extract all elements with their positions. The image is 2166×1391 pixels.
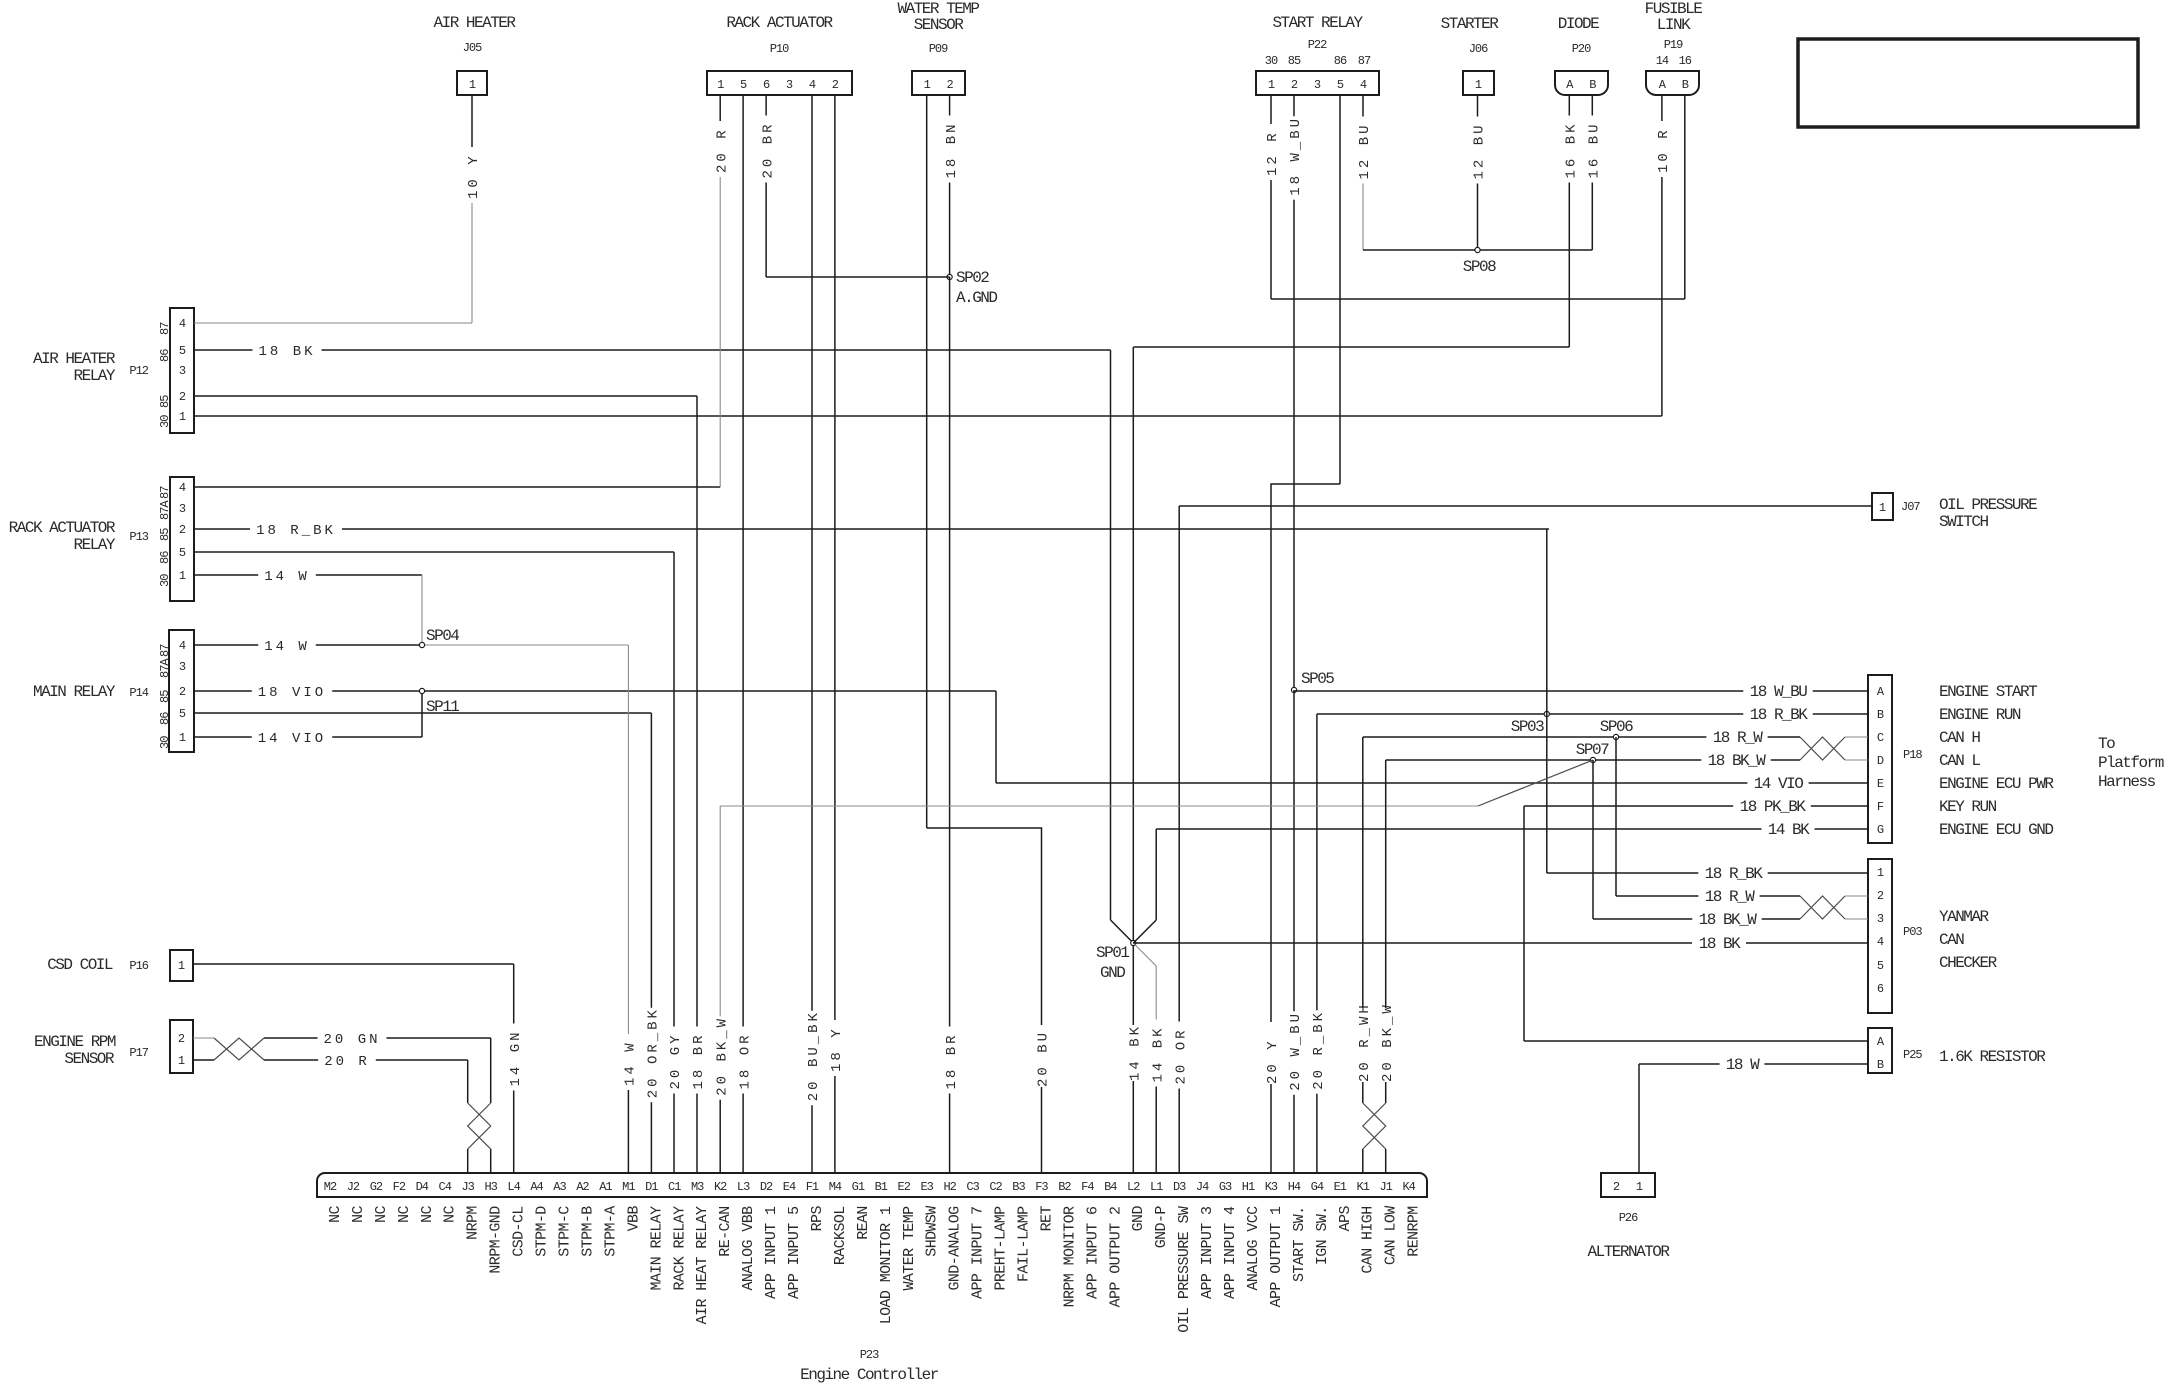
svg-text:1: 1 (178, 959, 185, 973)
svg-text:F2: F2 (393, 1180, 406, 1194)
svg-text:F3: F3 (1035, 1180, 1048, 1194)
svg-text:K2: K2 (714, 1180, 727, 1194)
svg-text:18 Y: 18 Y (829, 1026, 845, 1072)
svg-text:87A: 87A (158, 500, 172, 520)
svg-text:APP INPUT 5: APP INPUT 5 (786, 1206, 803, 1299)
svg-text:APS: APS (1337, 1206, 1354, 1232)
svg-text:18 PK_BK: 18 PK_BK (1740, 798, 1807, 816)
wire P13 pin5 to C1 column (194, 551, 674, 553)
svg-text:P17: P17 (129, 1046, 148, 1060)
svg-text:DIODE: DIODE (1558, 15, 1599, 33)
svg-text:86: 86 (1334, 54, 1347, 68)
svg-text:H4: H4 (1288, 1180, 1301, 1194)
wire P12 pin5 18 BK (194, 349, 253, 351)
svg-text:M4: M4 (829, 1180, 842, 1194)
svg-text:P03: P03 (1903, 925, 1922, 939)
wire P20.A 16 BK (1568, 95, 1570, 116)
wire diag into SP01 from G row (1133, 920, 1156, 943)
svg-text:YANMAR: YANMAR (1939, 908, 1990, 926)
wire P18.D 18 BK_W (1386, 759, 1702, 761)
svg-text:CAN LOW: CAN LOW (1383, 1206, 1400, 1265)
svg-text:14 BK: 14 BK (1150, 1025, 1166, 1082)
svg-text:ENGINE RPM: ENGINE RPM (34, 1033, 116, 1051)
svg-text:1: 1 (1475, 78, 1482, 92)
svg-text:3: 3 (179, 660, 186, 674)
svg-text:VBB: VBB (625, 1206, 642, 1232)
wire F corner down to P25.A row (1523, 806, 1525, 1041)
svg-text:10 Y: 10 Y (466, 153, 482, 199)
svg-text:SP01: SP01 (1096, 944, 1129, 962)
svg-text:P22: P22 (1308, 38, 1327, 52)
wire P25.A row (1524, 1040, 1868, 1042)
svg-text:A4: A4 (530, 1180, 543, 1194)
wire P13.2 down through SP03 to P03.1 (1546, 529, 1548, 873)
svg-text:LOAD MONITOR 1: LOAD MONITOR 1 (878, 1206, 895, 1324)
twisted pair CAN H / CAN L (1800, 737, 1845, 760)
wire SP01 to P03.4 (1133, 942, 1868, 944)
wire P13.1 down to SP04 (421, 575, 423, 645)
svg-text:2: 2 (1877, 889, 1884, 903)
wire 20 GN (264, 1037, 318, 1039)
wire J06 12 BU (1477, 95, 1479, 117)
svg-text:12 BU: 12 BU (1472, 122, 1488, 179)
wire SP07 down to P03.3 (1592, 760, 1594, 919)
svg-text:3: 3 (1314, 78, 1321, 92)
svg-text:OIL PRESSURE SW: OIL PRESSURE SW (1176, 1206, 1193, 1333)
svg-text:18 R_W: 18 R_W (1713, 729, 1764, 747)
svg-text:5: 5 (1337, 78, 1344, 92)
svg-text:K3: K3 (1265, 1180, 1278, 1194)
svg-text:G1: G1 (852, 1180, 865, 1194)
svg-text:RPS: RPS (809, 1206, 826, 1232)
svg-text:SP06: SP06 (1600, 718, 1633, 736)
svg-text:D1: D1 (645, 1180, 658, 1194)
wire diag out of SP01 to L1 (1133, 943, 1156, 966)
svg-text:5: 5 (179, 707, 186, 721)
svg-text:SP02: SP02 (956, 269, 989, 287)
svg-text:M1: M1 (622, 1180, 635, 1194)
svg-text:14 VIO: 14 VIO (1754, 775, 1804, 793)
svg-text:14: 14 (1656, 54, 1669, 68)
svg-text:GND-P: GND-P (1153, 1206, 1170, 1249)
svg-text:A: A (1566, 78, 1574, 92)
svg-text:STPM-A: STPM-A (602, 1206, 619, 1257)
svg-text:P12: P12 (129, 364, 148, 378)
wire P22.5 down (1339, 95, 1341, 484)
svg-text:1: 1 (1636, 1180, 1643, 1194)
svg-text:20 BK_W: 20 BK_W (714, 1016, 730, 1096)
svg-text:ALTERNATOR: ALTERNATOR (1587, 1243, 1670, 1261)
connector P19 (fusible link), rounded bottom (1646, 71, 1699, 95)
svg-text:J4: J4 (1196, 1180, 1209, 1194)
svg-text:3: 3 (179, 364, 186, 378)
svg-text:B4: B4 (1104, 1180, 1117, 1194)
svg-text:ENGINE ECU GND: ENGINE ECU GND (1939, 821, 2053, 839)
svg-text:MAIN RELAY: MAIN RELAY (33, 683, 116, 701)
wire P20.B 16 BU (1591, 95, 1593, 116)
svg-text:18 W_BU: 18 W_BU (1750, 683, 1808, 701)
svg-text:E: E (1877, 777, 1884, 791)
wire L4 14 GN (513, 964, 515, 1024)
svg-text:20 GN: 20 GN (323, 1032, 380, 1048)
wire J05 down 10 Y (471, 95, 473, 147)
svg-text:B: B (1877, 708, 1884, 722)
svg-text:30: 30 (158, 736, 172, 749)
svg-text:WATER TEMP: WATER TEMP (901, 1206, 918, 1291)
node SP05 (1291, 687, 1296, 692)
connector P22 (start relay) (1256, 71, 1379, 95)
wire J07 down to D3 20 OR (1178, 506, 1180, 1022)
twisted pair CAN HIGH/LOW (1363, 1103, 1386, 1149)
svg-text:OIL PRESSURE: OIL PRESSURE (1939, 496, 2037, 514)
svg-text:4: 4 (179, 639, 186, 653)
svg-text:J07: J07 (1901, 500, 1920, 514)
svg-text:RELAY: RELAY (73, 367, 115, 385)
connector P26 (alternator) (1601, 1173, 1655, 1197)
svg-text:CAN L: CAN L (1939, 752, 1980, 770)
wire P17.2 stub (193, 1037, 214, 1039)
svg-text:GND: GND (1130, 1206, 1147, 1232)
wire twist tail C (1845, 736, 1868, 738)
svg-text:AIR HEATER: AIR HEATER (433, 14, 516, 32)
svg-text:G3: G3 (1219, 1180, 1232, 1194)
svg-text:1: 1 (469, 78, 476, 92)
wire P22.4 12 BU (1362, 95, 1364, 117)
wire SP05 down to H4 20 W_BU (1293, 690, 1295, 1011)
svg-text:F4: F4 (1081, 1180, 1094, 1194)
svg-text:CAN HIGH: CAN HIGH (1360, 1206, 1377, 1273)
svg-text:J06: J06 (1469, 42, 1488, 56)
wire SP11 row to x996 (422, 690, 996, 692)
node SP03 (1544, 711, 1549, 716)
svg-text:CHECKER: CHECKER (1939, 954, 1998, 972)
connector J07 (oil pressure switch) (1872, 493, 1893, 520)
wire P18.E 14 VIO (996, 782, 1747, 784)
svg-text:18 BR: 18 BR (944, 1032, 960, 1089)
wire P18.F 18 PK_BK (1524, 805, 1733, 807)
wire into K1 (1362, 1149, 1364, 1173)
wire K2 20 BK_W (719, 806, 721, 1016)
svg-text:NRPM MONITOR: NRPM MONITOR (1061, 1206, 1078, 1307)
connector P16 (CSD coil) (170, 950, 193, 981)
svg-text:Engine Controller: Engine Controller (800, 1366, 939, 1384)
wire diag into SP01 (1111, 920, 1134, 943)
wire P18.A 18 W_BU (1294, 690, 1743, 692)
svg-text:20 BK_W: 20 BK_W (1380, 1002, 1396, 1082)
svg-text:85: 85 (158, 528, 172, 541)
svg-text:SHDWSW: SHDWSW (924, 1206, 941, 1257)
wire P14 pin2 18 VIO (194, 690, 252, 692)
svg-text:4: 4 (179, 317, 186, 331)
svg-text:18 BK: 18 BK (258, 344, 315, 360)
svg-text:C2: C2 (989, 1180, 1002, 1194)
wire H3 down (490, 1038, 492, 1103)
wire twist tail P03.3 (1845, 918, 1868, 920)
wire P10.4 to F1 20 BU_BK (811, 95, 813, 1011)
svg-text:NC: NC (442, 1205, 459, 1222)
svg-text:APP INPUT 7: APP INPUT 7 (970, 1207, 987, 1299)
wire into H3 (490, 1149, 492, 1173)
svg-text:18 R_W: 18 R_W (1705, 888, 1756, 906)
svg-text:87: 87 (158, 644, 172, 657)
wire P19.A 10 R (1661, 95, 1663, 121)
wire ECU GND down (1155, 829, 1157, 920)
svg-text:16 BK: 16 BK (1564, 121, 1580, 178)
wire P03.1 18 R_BK (1547, 872, 1699, 874)
svg-text:G: G (1877, 823, 1884, 837)
svg-text:F1: F1 (806, 1180, 819, 1194)
svg-text:STPM-C: STPM-C (557, 1206, 574, 1257)
svg-text:NRPM: NRPM (465, 1206, 482, 1240)
node SP07 (1590, 757, 1595, 762)
wire P03.2 18 R_W (1616, 895, 1698, 897)
svg-text:14 GN: 14 GN (508, 1029, 524, 1086)
wire SP02 row (766, 276, 950, 278)
twisted pair NRPM (468, 1103, 491, 1149)
svg-text:18 W: 18 W (1726, 1056, 1760, 1074)
connector P09 (water temp sensor) (912, 71, 965, 95)
svg-text:RACK ACTUATOR: RACK ACTUATOR (9, 519, 116, 537)
svg-text:RACKSOL: RACKSOL (832, 1206, 849, 1265)
svg-text:A.GND: A.GND (956, 289, 997, 307)
svg-text:A: A (1877, 1035, 1885, 1049)
svg-text:14 BK: 14 BK (1768, 821, 1810, 839)
svg-text:14 BK: 14 BK (1128, 1024, 1144, 1081)
svg-text:12 BU: 12 BU (1357, 122, 1373, 179)
svg-text:2: 2 (179, 685, 186, 699)
wire P12 pin4 row to J05 (194, 322, 472, 324)
svg-text:LINK: LINK (1657, 16, 1691, 34)
svg-text:10 R: 10 R (1656, 127, 1672, 173)
svg-text:18 VIO: 18 VIO (258, 685, 326, 701)
wire J1 down from CAN L row (1385, 760, 1387, 1103)
svg-text:K4: K4 (1402, 1180, 1415, 1194)
wire K1 down from CAN H row (1362, 737, 1364, 1103)
svg-text:J3: J3 (461, 1180, 474, 1194)
svg-text:K1: K1 (1357, 1180, 1370, 1194)
svg-text:14 W: 14 W (623, 1040, 639, 1086)
svg-text:PREHT-LAMP: PREHT-LAMP (993, 1206, 1010, 1291)
svg-text:14 VIO: 14 VIO (258, 731, 326, 747)
svg-text:NC: NC (396, 1205, 413, 1222)
svg-text:P19: P19 (1664, 38, 1683, 52)
svg-text:20 GY: 20 GY (668, 1032, 684, 1089)
svg-text:P10: P10 (770, 42, 789, 56)
connector P25 (1.6K resistor) (1868, 1028, 1892, 1073)
wire C1 20 GY (673, 552, 675, 1027)
svg-text:REAN: REAN (855, 1206, 872, 1240)
svg-text:RELAY: RELAY (73, 536, 115, 554)
svg-text:B2: B2 (1058, 1180, 1071, 1194)
wire P20.A row to SP01 column (1133, 346, 1569, 348)
svg-text:M3: M3 (691, 1180, 704, 1194)
wire into J1 (1385, 1149, 1387, 1173)
wire P20.A down through SP01 to L2 (1132, 347, 1134, 1173)
svg-text:P25: P25 (1903, 1048, 1922, 1062)
wire P25.B down to P26.1 (1638, 1064, 1640, 1173)
svg-text:APP INPUT 6: APP INPUT 6 (1084, 1206, 1101, 1299)
svg-text:18 OR: 18 OR (737, 1032, 753, 1089)
svg-text:P09: P09 (929, 42, 948, 56)
wire M1 14 W (627, 645, 629, 1034)
svg-text:P13: P13 (129, 530, 148, 544)
wire 18 BK down (1110, 350, 1112, 920)
wire P22.1 12 R (1270, 95, 1272, 124)
svg-text:J05: J05 (463, 41, 482, 55)
svg-text:5: 5 (179, 344, 186, 358)
svg-text:87A: 87A (158, 658, 172, 678)
svg-text:SP03: SP03 (1511, 718, 1544, 736)
wire P25.B 18 W (1639, 1063, 1720, 1065)
svg-text:2: 2 (1291, 78, 1298, 92)
wire P10.2 to M4 18 Y (834, 95, 836, 1020)
svg-text:A1: A1 (599, 1180, 612, 1194)
svg-text:APP INPUT 3: APP INPUT 3 (1199, 1206, 1216, 1299)
svg-text:SENSOR: SENSOR (914, 16, 965, 34)
svg-text:L2: L2 (1127, 1180, 1140, 1194)
svg-text:Platform: Platform (2098, 754, 2164, 772)
svg-text:20 Y: 20 Y (1265, 1038, 1281, 1084)
svg-text:C3: C3 (966, 1180, 979, 1194)
svg-text:5: 5 (1877, 959, 1884, 973)
wire P22.2 18 W_BU (1293, 95, 1295, 116)
svg-text:A: A (1877, 685, 1885, 699)
svg-text:12 R: 12 R (1265, 130, 1281, 176)
wire SP01 to L1 14 BK (1155, 966, 1157, 1020)
svg-text:ANALOG VCC: ANALOG VCC (1245, 1206, 1262, 1291)
svg-text:GND: GND (1100, 964, 1125, 982)
wire 18 VIO down to E row (995, 691, 997, 783)
relay P12 (air heater relay) (170, 308, 194, 433)
wire P10.5 to L3 18 OR (742, 95, 744, 1027)
svg-text:AIR HEATER: AIR HEATER (33, 350, 116, 368)
svg-text:NC: NC (373, 1205, 390, 1222)
svg-text:4: 4 (809, 78, 816, 92)
wire P10.1 20 R (719, 95, 721, 121)
svg-text:ENGINE ECU PWR: ENGINE ECU PWR (1939, 775, 2054, 793)
svg-text:1: 1 (179, 731, 186, 745)
svg-text:20 OR_BK: 20 OR_BK (646, 1007, 662, 1098)
wire P16 row (193, 963, 514, 965)
svg-text:SP07: SP07 (1576, 741, 1609, 759)
svg-text:C: C (1877, 731, 1884, 745)
svg-text:B3: B3 (1012, 1180, 1025, 1194)
wire P13 pin4 to P10.1 column (194, 486, 720, 488)
svg-text:KEY RUN: KEY RUN (1939, 798, 1997, 816)
wire P22.5 jog to K3 (1271, 484, 1340, 1173)
wire SP08 row (1363, 249, 1592, 251)
svg-text:J1: J1 (1379, 1180, 1392, 1194)
svg-text:20 R: 20 R (714, 127, 730, 173)
wire 20 R (264, 1059, 318, 1061)
svg-text:FAIL-LAMP: FAIL-LAMP (1016, 1206, 1033, 1282)
twisted pair engine rpm sensor (214, 1038, 264, 1060)
wire SP02 down to H2 18 BR (949, 277, 951, 1027)
svg-text:2: 2 (946, 78, 953, 92)
svg-text:85: 85 (158, 395, 172, 408)
wire P09.1 jog to F3 (927, 828, 1042, 1173)
svg-text:A: A (1659, 78, 1667, 92)
svg-text:30: 30 (1265, 54, 1278, 68)
svg-text:P18: P18 (1903, 748, 1922, 762)
svg-text:Harness: Harness (2098, 773, 2156, 791)
svg-text:6: 6 (763, 78, 770, 92)
wire P10.6 20 BR (765, 95, 767, 116)
svg-text:1: 1 (924, 78, 931, 92)
svg-text:4: 4 (179, 481, 186, 495)
svg-text:SP04: SP04 (426, 627, 459, 645)
svg-text:A3: A3 (553, 1180, 566, 1194)
connector P10 (rack actuator) (707, 71, 852, 95)
svg-text:SP05: SP05 (1301, 670, 1334, 688)
svg-text:START RELAY: START RELAY (1272, 14, 1363, 32)
svg-text:5: 5 (179, 546, 186, 560)
svg-text:18 R_BK: 18 R_BK (1705, 865, 1764, 883)
node SP02 (947, 274, 952, 279)
svg-text:30: 30 (158, 415, 172, 428)
svg-text:H2: H2 (943, 1180, 956, 1194)
svg-text:SP11: SP11 (426, 698, 459, 716)
svg-text:1.6K RESISTOR: 1.6K RESISTOR (1939, 1048, 2046, 1066)
svg-text:20 W_BU: 20 W_BU (1288, 1011, 1304, 1091)
svg-text:C1: C1 (668, 1180, 681, 1194)
connector P17 (engine rpm sensor) (170, 1020, 193, 1073)
svg-text:START SW.: START SW. (1291, 1206, 1308, 1282)
svg-text:18 BK_W: 18 BK_W (1699, 911, 1758, 929)
wire D1 20 OR_BK (650, 713, 652, 1008)
svg-text:18 BR: 18 BR (691, 1032, 707, 1089)
connector J05 (air heater) (457, 71, 487, 95)
svg-text:20 R_WH: 20 R_WH (1357, 1002, 1373, 1082)
svg-text:SENSOR: SENSOR (64, 1050, 115, 1068)
svg-text:E1: E1 (1334, 1180, 1347, 1194)
svg-text:1: 1 (1879, 501, 1886, 515)
wire P17.1 stub (193, 1059, 214, 1061)
svg-text:APP OUTPUT 2: APP OUTPUT 2 (1107, 1207, 1124, 1308)
svg-text:30: 30 (158, 574, 172, 587)
svg-text:16: 16 (1679, 54, 1692, 68)
svg-text:ANALOG VBB: ANALOG VBB (740, 1206, 757, 1291)
node SP08 (1475, 247, 1480, 252)
svg-text:86: 86 (158, 551, 172, 564)
svg-text:2: 2 (178, 1032, 185, 1046)
svg-text:5: 5 (740, 78, 747, 92)
wire KEY RUN long row (720, 805, 1478, 807)
wire SP04 to M1 column (422, 644, 628, 646)
connector P20 (diode), rounded bottom (1555, 71, 1608, 95)
svg-text:L4: L4 (507, 1180, 520, 1194)
wire SP06 down to P03.2 (1615, 737, 1617, 896)
wire P13 pin2 18 R_BK (194, 528, 250, 530)
wire J3 down (467, 1060, 469, 1103)
svg-text:D3: D3 (1173, 1180, 1186, 1194)
svg-text:E2: E2 (898, 1180, 911, 1194)
svg-text:SWITCH: SWITCH (1939, 513, 1989, 531)
svg-text:GND-ANALOG: GND-ANALOG (947, 1206, 964, 1291)
svg-text:CSD-CL: CSD-CL (511, 1206, 528, 1257)
svg-text:L1: L1 (1150, 1180, 1163, 1194)
svg-text:6: 6 (1877, 982, 1884, 996)
svg-text:B: B (1589, 78, 1596, 92)
svg-text:3: 3 (179, 502, 186, 516)
svg-text:B: B (1682, 78, 1689, 92)
svg-text:D2: D2 (760, 1180, 773, 1194)
svg-text:To: To (2098, 735, 2115, 753)
svg-text:87: 87 (158, 322, 172, 335)
connector J06 (starter) (1463, 71, 1494, 95)
svg-text:SP08: SP08 (1463, 258, 1496, 276)
svg-text:RENRPM: RENRPM (1406, 1206, 1423, 1257)
